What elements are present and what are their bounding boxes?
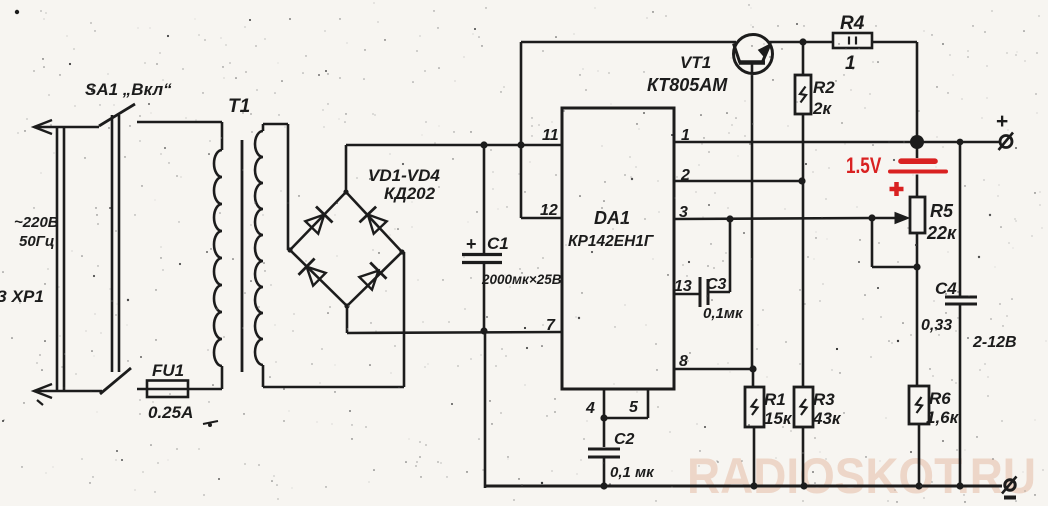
svg-text:2-12В: 2-12В	[972, 334, 1017, 351]
svg-text:R2: R2	[813, 78, 835, 97]
svg-text:RADIOSKOT.RU: RADIOSKOT.RU	[687, 448, 1036, 504]
svg-text:С2: С2	[614, 431, 635, 448]
svg-text:КТ805АМ: КТ805АМ	[647, 75, 728, 95]
svg-text:43к: 43к	[812, 409, 842, 428]
svg-text:12: 12	[540, 202, 558, 219]
svg-text:+: +	[996, 110, 1008, 133]
svg-text:0,33: 0,33	[921, 317, 952, 334]
svg-text:~220В: ~220В	[14, 214, 59, 231]
svg-text:З ХР1: З ХР1	[0, 287, 44, 306]
svg-text:+: +	[466, 234, 477, 254]
svg-text:22к: 22к	[926, 223, 957, 243]
svg-text:SA1 „Вкл“: SA1 „Вкл“	[85, 80, 172, 99]
svg-text:0,1мк: 0,1мк	[703, 305, 744, 322]
svg-text:VT1: VT1	[680, 53, 711, 72]
svg-text:0,1 мк: 0,1 мк	[610, 464, 655, 481]
svg-text:R3: R3	[813, 390, 835, 409]
svg-text:R5: R5	[930, 201, 954, 221]
svg-text:2к: 2к	[812, 99, 832, 118]
svg-text:R1: R1	[764, 390, 786, 409]
svg-text:2: 2	[680, 167, 690, 184]
svg-text:15к: 15к	[764, 409, 793, 428]
svg-text:0.25А: 0.25А	[148, 403, 193, 422]
svg-text:VD1-VD4: VD1-VD4	[368, 166, 440, 185]
svg-text:1,6к: 1,6к	[926, 408, 960, 427]
svg-text:Т1: Т1	[228, 96, 250, 117]
svg-text:R6: R6	[929, 389, 951, 408]
svg-text:1.5V: 1.5V	[846, 154, 882, 179]
svg-text:5: 5	[629, 399, 639, 416]
svg-text:С3: С3	[706, 276, 727, 293]
svg-text:13: 13	[674, 278, 692, 295]
svg-text:1: 1	[681, 127, 690, 144]
svg-text:КД202: КД202	[384, 184, 436, 203]
svg-text:С4: С4	[935, 279, 957, 298]
svg-text:2000мк×25В: 2000мк×25В	[481, 272, 562, 287]
svg-text:FU1: FU1	[152, 361, 184, 380]
svg-text:R4: R4	[840, 13, 865, 34]
svg-text:КР142ЕН1Г: КР142ЕН1Г	[568, 233, 655, 250]
svg-text:1: 1	[845, 53, 856, 74]
svg-text:7: 7	[546, 317, 556, 334]
svg-text:4: 4	[585, 400, 595, 417]
svg-text:11: 11	[542, 127, 559, 144]
svg-text:3: 3	[679, 204, 688, 221]
svg-text:8: 8	[679, 353, 688, 370]
svg-text:50Гц: 50Гц	[19, 233, 55, 250]
svg-text:DA1: DA1	[594, 208, 630, 228]
svg-text:С1: С1	[487, 234, 509, 253]
